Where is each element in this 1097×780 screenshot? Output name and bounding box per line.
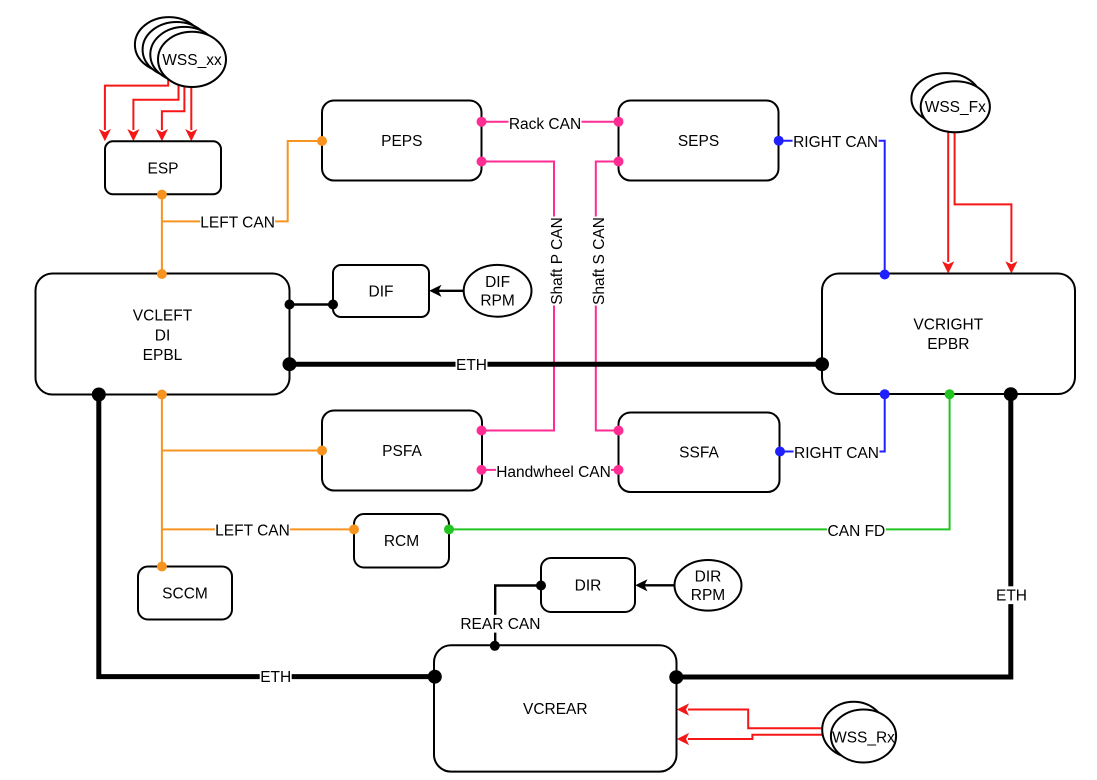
svg-text:RPM: RPM [691,587,725,604]
wire black DIR to VCREAR (REAR CAN) [495,586,541,646]
wire black thick ETH VCLEFT-VCREAR [99,395,435,677]
svg-text:RCM: RCM [384,533,419,550]
wire red WSS_Fx arrow 1 to VCRIGHT [947,132,949,262]
box PEPS [322,101,482,181]
box DIF [333,265,429,317]
wire black VCLEFT to DIF [290,303,334,305]
sensor ellipse DIF RPM [464,265,532,317]
junction pink SEPS left lower [614,157,624,167]
wire red WSS_Rx arrow 1 to VCREAR [688,710,822,729]
svg-text:ESP: ESP [147,161,178,178]
junction pink SEPS left upper [614,117,624,127]
box SEPS [619,101,779,181]
junction pink PEPS right lower [477,157,487,167]
box DIR [541,558,635,612]
junction black ETH VCRIGHT bottom [1004,387,1018,401]
wire red WSS_xx arrow 4 to ESP [190,87,192,130]
label RIGHT CAN upper [793,133,879,151]
svg-text:RIGHT CAN: RIGHT CAN [794,445,879,462]
label Shaft S CAN vertical [590,217,608,306]
wire green CAN FD RCM to VCRIGHT [449,394,950,529]
sensor ellipse stack WSS_Rx [822,702,896,763]
svg-text:EPBL: EPBL [143,347,183,364]
label ETH middle [456,356,488,374]
svg-text:DIR: DIR [575,578,602,595]
wire orange LEFT CAN branch to PEPS [162,141,322,221]
box VCRIGHT EPBR [822,274,1075,395]
box PSFA [322,411,482,491]
box ESP [105,141,221,194]
wire black thick ETH VCRIGHT-VCREAR [677,394,1011,677]
svg-text:VCLEFT: VCLEFT [133,308,193,325]
box VCREAR [434,645,677,771]
svg-text:DI: DI [155,327,171,344]
label LEFT CAN upper [200,213,275,231]
svg-text:WSS_xx: WSS_xx [162,52,222,69]
arrowhead red 4 [185,129,197,141]
arrowhead red 5 [942,261,954,273]
label Rack CAN [509,115,582,133]
svg-text:PEPS: PEPS [381,133,422,150]
arrowhead black DIF RPM to DIF [429,285,441,297]
sensor ellipse stack WSS_xx [135,17,226,87]
junction orange RCM left [349,524,359,534]
arrowhead red 7 [677,703,689,715]
arrowhead black DIR RPM to DIR [635,579,647,591]
junction black ETH VCREAR left [428,670,442,684]
label REAR CAN [460,615,541,633]
svg-text:LEFT CAN: LEFT CAN [200,215,275,232]
svg-text:Handwheel CAN: Handwheel CAN [496,464,611,481]
junction orange VCLEFT bottom [157,390,167,400]
svg-text:SEPS: SEPS [678,133,719,150]
svg-text:Shaft P CAN: Shaft P CAN [549,217,566,305]
svg-text:ETH: ETH [260,669,291,686]
junction blue SSFA right [775,447,785,457]
arrowhead red 1 [99,129,111,141]
wire orange VCLEFT to SCCM trunk [161,395,163,567]
junction pink PSFA right lower [477,465,487,475]
wire red WSS_xx arrow 2 to ESP [133,85,178,130]
box VCLEFT DI EPBL [36,274,290,395]
label CAN FD [827,522,886,540]
wire black thick ETH VCLEFT-VCRIGHT [290,362,823,367]
junction orange PEPS left [317,136,327,146]
wire red WSS_Fx arrow 2 to VCRIGHT [955,132,1012,262]
junction blue VCRIGHT bottom [880,389,890,399]
label ETH bottom left [260,668,292,686]
wire red WSS_xx arrow 3 to ESP [162,86,185,130]
label Shaft P CAN vertical [548,217,566,306]
svg-text:LEFT CAN: LEFT CAN [215,523,290,540]
label LEFT CAN lower [215,521,290,539]
junction black ETH VCLEFT bottom [92,388,106,402]
svg-text:SSFA: SSFA [679,445,719,462]
svg-text:EPBR: EPBR [927,336,969,353]
junction orange SCCM top [157,562,167,572]
junction orange ESP bottom [157,190,167,200]
wire orange LEFT CAN branch to RCM [162,528,354,530]
svg-text:CAN FD: CAN FD [828,523,886,540]
junction pink SSFA left lower [614,465,624,475]
box SCCM [138,567,232,620]
svg-text:WSS_Fx: WSS_Fx [925,99,986,116]
svg-text:DIF: DIF [485,274,510,291]
junction green RCM right [444,524,454,534]
box SSFA [619,413,780,493]
sensor ellipse DIR RPM [675,560,742,611]
label RIGHT CAN lower [794,444,880,462]
wire red WSS_Rx arrow 2 to VCREAR [688,735,830,739]
svg-text:VCREAR: VCREAR [523,701,588,718]
svg-text:PSFA: PSFA [382,443,422,460]
wire black DIR RPM to DIR [640,584,675,586]
junction black ETH VCLEFT right [283,357,297,371]
junction orange VCLEFT top [157,269,167,279]
label Handwheel CAN [496,463,611,481]
arrowhead red 8 [677,733,689,745]
wire orange ESP to VCLEFT (LEFT CAN trunk) [161,195,163,274]
junction black VCLEFT right DIF [285,300,295,310]
junction black DIR left [536,581,546,591]
wire pink Shaft P CAN PEPS-PSFA [482,162,555,431]
junction black DIF left [328,300,338,310]
svg-text:RIGHT CAN: RIGHT CAN [793,134,878,151]
arrowhead red 3 [156,129,168,141]
wire blue RIGHT CAN SSFA to VCRIGHT [780,394,885,451]
wire black DIF RPM to DIF [434,290,464,292]
svg-text:Rack CAN: Rack CAN [509,116,581,133]
svg-text:VCRIGHT: VCRIGHT [913,317,983,334]
box RCM [354,514,449,568]
svg-text:REAR CAN: REAR CAN [460,616,540,633]
junction pink PSFA right upper [477,426,487,436]
junction blue VCRIGHT top [880,270,890,280]
wire pink Rack CAN PEPS-SEPS [482,121,619,123]
svg-text:DIF: DIF [369,284,394,301]
junction orange PSFA left [317,446,327,456]
junction pink SSFA left upper [614,426,624,436]
sensor ellipse stack WSS_Fx [911,73,990,132]
svg-text:WSS_Rx: WSS_Rx [832,729,895,746]
svg-text:DIR: DIR [695,569,722,586]
wire red WSS_xx arrow 1 to ESP [105,79,168,130]
svg-text:ETH: ETH [996,588,1027,605]
wire pink Handwheel CAN PSFA-SSFA [482,469,619,471]
wire blue RIGHT CAN SEPS to VCRIGHT [779,141,885,274]
junction black ETH VCRIGHT left [815,357,829,371]
svg-text:RPM: RPM [480,293,514,310]
arrowhead red 2 [127,129,139,141]
svg-text:ETH: ETH [456,357,487,374]
junction black ETH VCREAR right [669,670,683,684]
wire orange branch to PSFA [162,450,322,452]
svg-text:Shaft S CAN: Shaft S CAN [591,217,608,305]
junction pink PEPS right upper [477,117,487,127]
junction green VCRIGHT bottom [945,389,955,399]
label ETH right [996,586,1028,604]
svg-text:SCCM: SCCM [162,586,208,603]
junction blue SEPS right [774,136,784,146]
junction black VCREAR top [490,641,500,651]
wire pink Shaft S CAN SEPS-SSFA [596,162,619,431]
arrowhead red 6 [1005,261,1017,273]
